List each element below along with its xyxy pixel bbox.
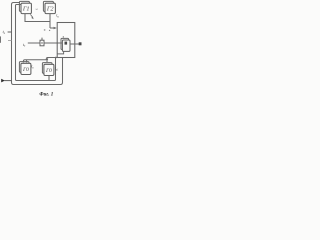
wire into indicator left xyxy=(57,42,62,44)
wire to F0a top xyxy=(23,60,46,63)
wire mid to indicator xyxy=(28,42,63,44)
wire jog to junction xyxy=(46,58,47,60)
input bottom arrow xyxy=(1,79,5,83)
wire G2 down to selector xyxy=(49,14,51,28)
svg-text:tз: tз xyxy=(23,42,26,48)
junction at bottom of block 3 xyxy=(55,57,57,59)
block 3 (selector) xyxy=(57,23,75,58)
wire indicator bottom L xyxy=(57,51,63,54)
wire G1 bottom to bus xyxy=(25,14,50,22)
junction dot xyxy=(56,42,58,44)
scan noise left edge xyxy=(0,36,1,42)
svg-text:ы: ы xyxy=(36,7,39,11)
generator G1 xyxy=(19,1,31,13)
node dot xyxy=(49,30,50,31)
svg-text:Г2: Г2 xyxy=(46,6,55,13)
svg-text:Г0: Г0 xyxy=(22,67,29,73)
wire inner feedback loop xyxy=(16,5,56,81)
leader arrow 1 xyxy=(30,14,32,17)
wire outer feedback loop xyxy=(12,3,63,85)
generator G2 xyxy=(43,1,55,13)
wire F0b bottom to inner loop xyxy=(48,76,50,81)
wire indicator output xyxy=(70,43,79,45)
svg-text:tи: tи xyxy=(56,13,59,19)
svg-text:Фиг. 1: Фиг. 1 xyxy=(39,92,53,97)
wire block3 bottom to F0b xyxy=(47,58,57,63)
former F0a xyxy=(19,62,31,75)
input second xyxy=(8,40,12,42)
svg-text:tи1: tи1 xyxy=(55,67,59,72)
svg-text:Г1: Г1 xyxy=(22,6,30,13)
svg-text:Г0: Г0 xyxy=(45,68,52,74)
indicator block U xyxy=(61,38,70,51)
former F0b xyxy=(42,63,54,76)
output terminal xyxy=(79,42,82,45)
svg-text:э: э xyxy=(44,27,46,32)
inline sensor xyxy=(40,40,44,46)
arrowhead into block 3 xyxy=(54,27,57,30)
svg-text:tв: tв xyxy=(31,65,34,70)
svg-text:tв: tв xyxy=(3,29,6,35)
